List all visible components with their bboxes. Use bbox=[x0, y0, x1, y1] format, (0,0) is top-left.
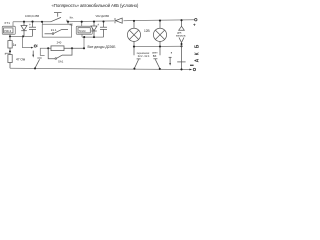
svg-text:+: + bbox=[29, 23, 31, 27]
switch SA1 bypass branch bbox=[48, 48, 72, 58]
svg-text:Кн.: Кн. bbox=[70, 16, 74, 20]
node dot piezo-rail bbox=[180, 68, 182, 70]
resistor R1 bbox=[8, 36, 12, 54]
relay K2 box bbox=[76, 26, 92, 34]
svg-text:К1.1: К1.1 bbox=[51, 28, 57, 32]
svg-text:1000,0×25В: 1000,0×25В bbox=[25, 14, 39, 18]
wire top rail mid section bbox=[67, 20, 114, 23]
diode VD3 series bbox=[115, 18, 122, 23]
svg-text:К2.2 - К2.4: К2.2 - К2.4 bbox=[138, 55, 150, 58]
node dot rail-K2 bbox=[81, 21, 83, 23]
connector socket X1 bbox=[34, 45, 36, 47]
switch K2.2 under HL1 bbox=[134, 59, 140, 68]
node dot SA-rail bbox=[34, 67, 36, 69]
wire K1 top lead bbox=[12, 22, 14, 26]
svg-text:«Полярность» автомобильной АКБ: «Полярность» автомобильной АКБ (условно) bbox=[52, 3, 139, 8]
svg-text:VD2 Д226Б: VD2 Д226Б bbox=[96, 14, 110, 18]
svg-text:Все диоды Д226Б: Все диоды Д226Б bbox=[88, 45, 117, 49]
battery terminal plus bbox=[195, 19, 197, 21]
lamp HL2 bbox=[153, 21, 166, 56]
svg-text:А: А bbox=[194, 58, 200, 62]
svg-text:+: + bbox=[193, 23, 196, 28]
svg-text:47 Ом: 47 Ом bbox=[16, 57, 25, 61]
capacitor C2 bbox=[100, 22, 107, 38]
svg-text:К: К bbox=[194, 51, 200, 55]
svg-text:К2: К2 bbox=[70, 22, 74, 26]
node dot K2.3-rail bbox=[159, 68, 161, 70]
node dot rail-C1 bbox=[31, 21, 33, 23]
wire stub left tap bbox=[5, 53, 10, 55]
svg-text:РЭС-9: РЭС-9 bbox=[4, 30, 11, 33]
diode VD2 bbox=[91, 22, 97, 37]
node dot R3 left bbox=[47, 47, 49, 49]
node dot net-HL2 bbox=[159, 45, 161, 47]
wire cross tick bbox=[177, 61, 185, 63]
connector arrow down bbox=[32, 55, 34, 58]
wire riser to right bus bbox=[83, 37, 85, 48]
svg-text:1: 1 bbox=[37, 44, 39, 48]
contact K1.1 pivot bbox=[52, 33, 54, 35]
relay K1 box bbox=[2, 26, 15, 34]
node dot rail-HL1 bbox=[133, 20, 135, 22]
label minus bbox=[190, 65, 194, 66]
capacitor C1 bbox=[29, 22, 36, 37]
node dot piezo mid bbox=[181, 43, 183, 45]
svg-text:1к: 1к bbox=[13, 43, 17, 47]
node dot net-piezo bbox=[180, 45, 182, 47]
svg-text:в: в bbox=[171, 52, 173, 55]
connector arrowhead down bbox=[169, 63, 171, 66]
wire right bus bbox=[82, 36, 104, 38]
svg-text:ХТ1: ХТ1 bbox=[4, 21, 10, 25]
node dot net-HL1 bbox=[133, 46, 135, 48]
piezo BF1 bbox=[179, 20, 185, 69]
node dot rail-VD1 bbox=[23, 21, 25, 23]
resistor R3 bbox=[51, 46, 84, 51]
node dot rail-box2 bbox=[67, 21, 69, 23]
svg-text:+: + bbox=[97, 23, 99, 27]
node dot bus-R1 bbox=[9, 35, 11, 37]
wire lamp net y46.5 bbox=[134, 45, 182, 47]
push button Kn bbox=[51, 13, 67, 22]
wire left bus bbox=[10, 35, 33, 37]
node dot bus2-riser bbox=[83, 36, 85, 38]
wire bottom rail bbox=[10, 68, 191, 69]
connector arrow X1 bbox=[31, 47, 34, 49]
node dot rail-piezo bbox=[180, 19, 182, 21]
node dot rail-HL2 bbox=[159, 20, 161, 22]
wire K2 top lead bbox=[81, 22, 83, 26]
wire top rail right section bbox=[124, 20, 195, 21]
contact SA1 pivot bbox=[55, 58, 57, 60]
switch SA lever bottom-left bbox=[35, 58, 42, 68]
wire box lead left bbox=[42, 22, 44, 25]
svg-text:ВЗ: ВЗ bbox=[153, 54, 157, 58]
node dot rail-box1 bbox=[41, 21, 43, 23]
svg-text:SА1: SА1 bbox=[58, 60, 64, 64]
svg-text:Б: Б bbox=[194, 44, 200, 48]
node dot riser bbox=[83, 47, 85, 49]
device box with contact K1.1 bbox=[42, 24, 71, 37]
svg-text:240: 240 bbox=[57, 40, 62, 44]
node dot bus-VD1 bbox=[22, 35, 24, 37]
wire arrow drop bbox=[32, 51, 34, 55]
node dot bus2-VD2 bbox=[93, 36, 95, 38]
battery terminal minus bbox=[193, 68, 195, 70]
wire drop from bus to connector bbox=[23, 36, 32, 47]
wire K2 bottom lead bbox=[81, 34, 83, 37]
wire K1 bottom lead bbox=[9, 34, 11, 36]
wire top rail left section bbox=[13, 21, 51, 23]
svg-text:12В: 12В bbox=[144, 29, 150, 33]
node dot K2.2-rail bbox=[133, 68, 135, 70]
svg-text:ТК1-М: ТК1-М bbox=[79, 30, 86, 33]
node dot rail-VD2 bbox=[93, 21, 95, 23]
resistor R2 bbox=[8, 55, 12, 69]
wire mid net y48 bbox=[40, 48, 51, 55]
contact K1.1 inside box bbox=[45, 29, 69, 34]
node dot rail-C2 bbox=[102, 20, 104, 22]
node dot R1-R2 bbox=[9, 50, 11, 52]
wire box lead right bbox=[67, 22, 69, 25]
battery terminal minus arrow bbox=[189, 69, 192, 71]
lamp HL1 bbox=[127, 21, 140, 55]
connector arrow mid-bottom bbox=[169, 57, 172, 63]
svg-text:капсюль: капсюль bbox=[176, 35, 186, 38]
switch K2.3 under HL2 bbox=[153, 59, 159, 69]
node dot R3 right bbox=[71, 47, 73, 49]
diode VD1 bbox=[21, 22, 27, 37]
